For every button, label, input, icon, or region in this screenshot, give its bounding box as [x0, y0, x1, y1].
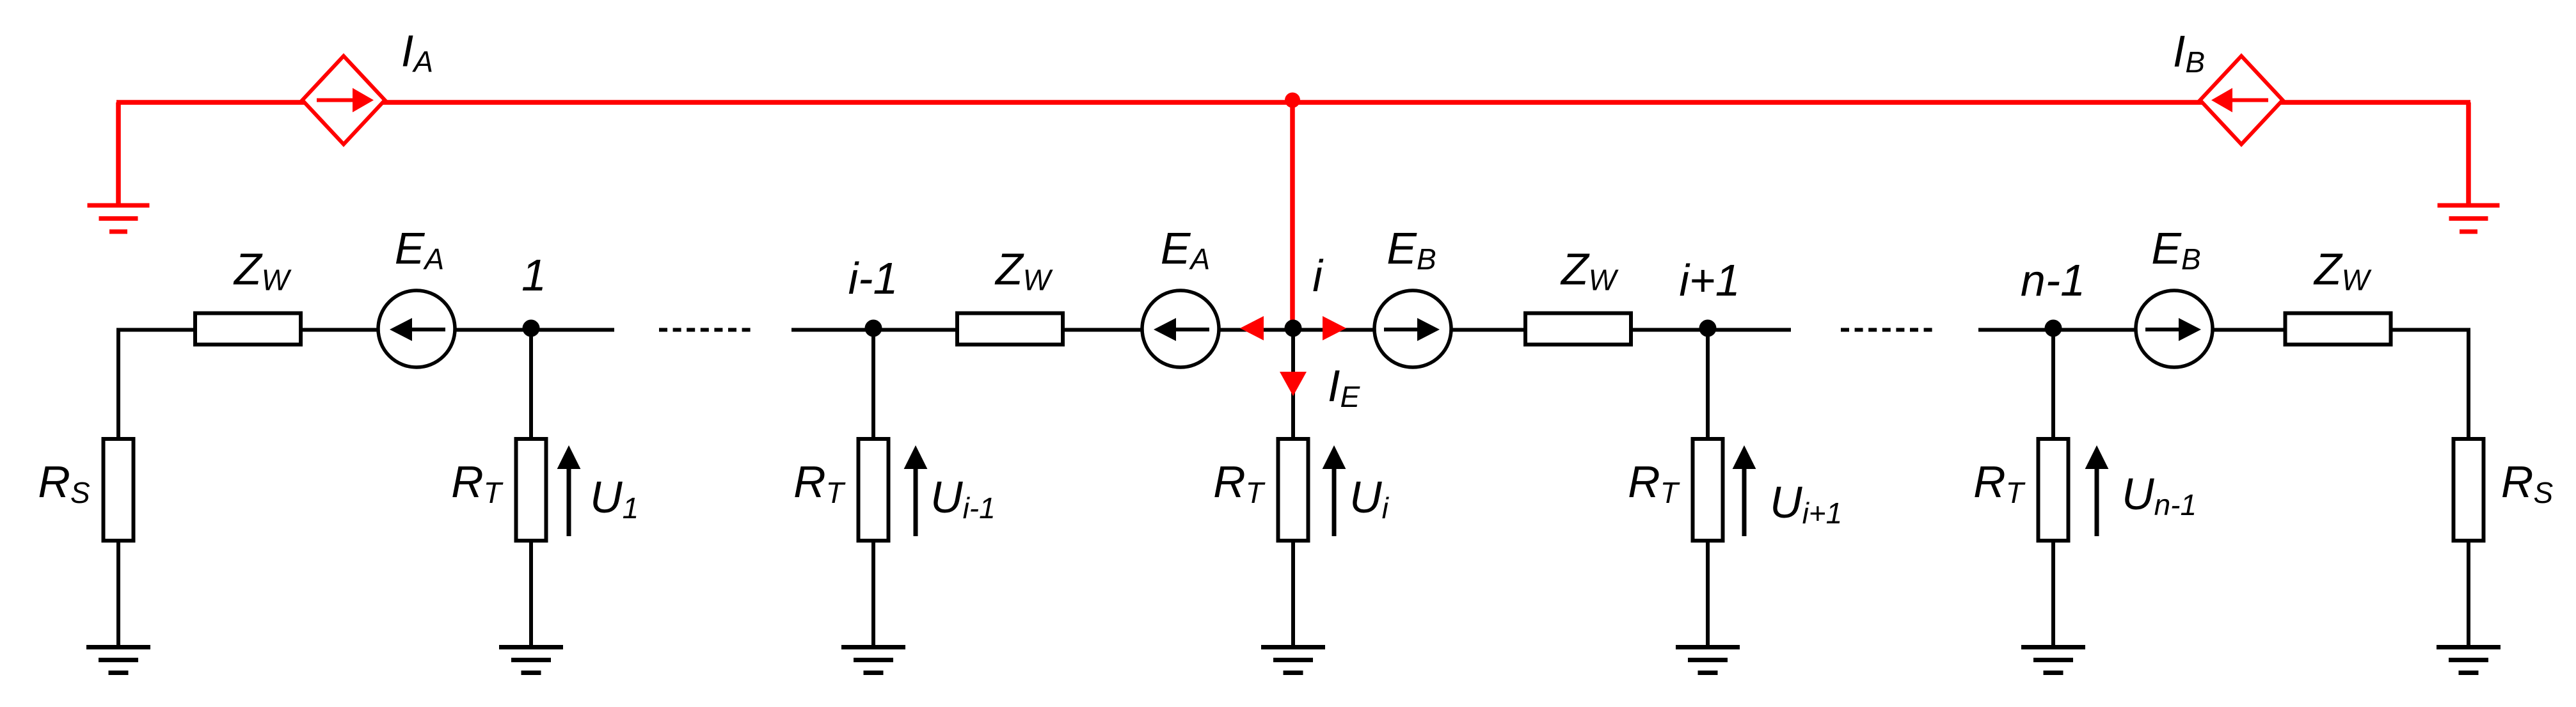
- svg-text:1: 1: [521, 250, 546, 300]
- svg-text:i+1: i+1: [1679, 255, 1740, 305]
- svg-text:n-1: n-1: [2021, 255, 2085, 305]
- svg-text:i: i: [1312, 251, 1324, 301]
- svg-text:i-1: i-1: [848, 253, 898, 303]
